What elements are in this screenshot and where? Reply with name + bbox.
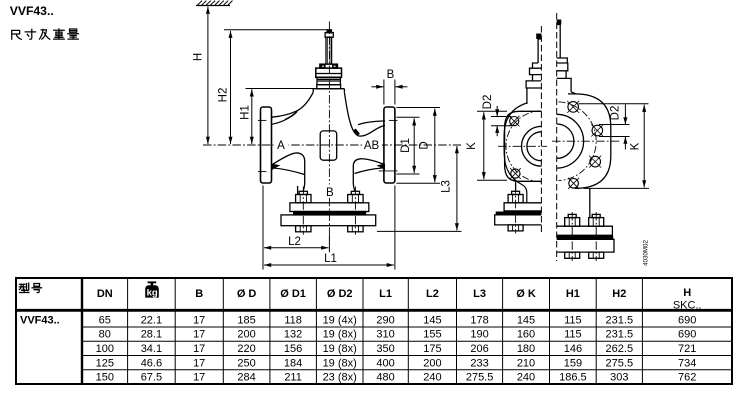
svg-text:4030M02: 4030M02 bbox=[643, 240, 650, 266]
svg-text:D2: D2 bbox=[482, 95, 494, 110]
svg-text:B: B bbox=[195, 288, 203, 300]
svg-text:28.1: 28.1 bbox=[141, 329, 162, 341]
svg-text:L2: L2 bbox=[426, 288, 439, 300]
svg-text:D1: D1 bbox=[400, 138, 412, 153]
svg-text:231.5: 231.5 bbox=[606, 329, 634, 341]
svg-text:H: H bbox=[193, 53, 205, 61]
svg-text:185: 185 bbox=[237, 314, 255, 326]
svg-text:200: 200 bbox=[237, 329, 255, 341]
svg-text:17: 17 bbox=[193, 357, 205, 369]
svg-text:H1: H1 bbox=[566, 288, 580, 300]
svg-text:K: K bbox=[629, 142, 641, 150]
svg-text:175: 175 bbox=[423, 343, 441, 355]
svg-text:231.5: 231.5 bbox=[606, 314, 634, 326]
svg-text:19 (8x): 19 (8x) bbox=[323, 357, 357, 369]
svg-text:19 (4x): 19 (4x) bbox=[323, 314, 357, 326]
svg-text:VVF43..: VVF43.. bbox=[10, 4, 54, 18]
svg-text:150: 150 bbox=[96, 371, 114, 383]
svg-text:262.5: 262.5 bbox=[606, 343, 634, 355]
svg-text:22.1: 22.1 bbox=[141, 314, 162, 326]
svg-text:118: 118 bbox=[284, 314, 302, 326]
svg-text:734: 734 bbox=[678, 357, 696, 369]
svg-text:DN: DN bbox=[97, 288, 113, 300]
svg-text:146: 146 bbox=[564, 343, 582, 355]
svg-text:H1: H1 bbox=[239, 105, 251, 120]
svg-text:100: 100 bbox=[96, 343, 114, 355]
svg-text:303: 303 bbox=[610, 371, 628, 383]
svg-text:H2: H2 bbox=[612, 288, 626, 300]
svg-text:400: 400 bbox=[376, 357, 394, 369]
svg-text:17: 17 bbox=[193, 371, 205, 383]
svg-text:690: 690 bbox=[678, 314, 696, 326]
svg-text:17: 17 bbox=[193, 343, 205, 355]
svg-text:Ø D: Ø D bbox=[237, 288, 257, 300]
svg-text:160: 160 bbox=[517, 329, 535, 341]
svg-text:80: 80 bbox=[99, 329, 111, 341]
svg-text:310: 310 bbox=[376, 329, 394, 341]
svg-text:480: 480 bbox=[376, 371, 394, 383]
svg-text:B: B bbox=[326, 187, 334, 199]
svg-text:180: 180 bbox=[517, 343, 535, 355]
svg-text:132: 132 bbox=[284, 329, 302, 341]
svg-text:115: 115 bbox=[564, 314, 582, 326]
svg-text:211: 211 bbox=[284, 371, 302, 383]
svg-text:159: 159 bbox=[564, 357, 582, 369]
svg-text:220: 220 bbox=[237, 343, 255, 355]
svg-text:762: 762 bbox=[678, 371, 696, 383]
svg-text:A: A bbox=[277, 140, 285, 152]
svg-text:67.5: 67.5 bbox=[141, 371, 162, 383]
svg-text:350: 350 bbox=[376, 343, 394, 355]
svg-text:19 (8x): 19 (8x) bbox=[323, 329, 357, 341]
svg-text:145: 145 bbox=[423, 314, 441, 326]
svg-text:Ø K: Ø K bbox=[516, 288, 536, 300]
svg-text:250: 250 bbox=[237, 357, 255, 369]
svg-text:B: B bbox=[387, 69, 395, 81]
svg-text:Ø D2: Ø D2 bbox=[327, 288, 353, 300]
svg-text:178: 178 bbox=[470, 314, 488, 326]
svg-text:184: 184 bbox=[284, 357, 302, 369]
svg-text:L3: L3 bbox=[473, 288, 486, 300]
svg-text:65: 65 bbox=[99, 314, 111, 326]
svg-text:690: 690 bbox=[678, 329, 696, 341]
svg-text:L3: L3 bbox=[441, 180, 453, 193]
svg-text:290: 290 bbox=[376, 314, 394, 326]
svg-text:19 (8x): 19 (8x) bbox=[323, 343, 357, 355]
svg-text:233: 233 bbox=[470, 357, 488, 369]
svg-text:D: D bbox=[419, 141, 431, 149]
svg-text:K: K bbox=[466, 142, 478, 150]
svg-text:186.5: 186.5 bbox=[559, 371, 587, 383]
svg-text:240: 240 bbox=[517, 371, 535, 383]
svg-text:34.1: 34.1 bbox=[141, 343, 162, 355]
svg-text:155: 155 bbox=[423, 329, 441, 341]
svg-text:721: 721 bbox=[678, 343, 696, 355]
svg-text:L1: L1 bbox=[379, 288, 392, 300]
svg-text:AB: AB bbox=[364, 140, 380, 152]
svg-text:284: 284 bbox=[237, 371, 255, 383]
svg-text:156: 156 bbox=[284, 343, 302, 355]
svg-text:L1: L1 bbox=[324, 253, 337, 265]
svg-text:206: 206 bbox=[470, 343, 488, 355]
svg-text:17: 17 bbox=[193, 329, 205, 341]
svg-text:kg: kg bbox=[147, 288, 158, 299]
svg-text:190: 190 bbox=[470, 329, 488, 341]
svg-text:145: 145 bbox=[517, 314, 535, 326]
svg-text:46.6: 46.6 bbox=[141, 357, 162, 369]
svg-text:VVF43..: VVF43.. bbox=[20, 315, 60, 327]
svg-text:240: 240 bbox=[423, 371, 441, 383]
svg-text:210: 210 bbox=[517, 357, 535, 369]
svg-text:275.5: 275.5 bbox=[606, 357, 634, 369]
svg-text:23 (8x): 23 (8x) bbox=[323, 371, 357, 383]
svg-text:L2: L2 bbox=[288, 236, 301, 248]
svg-text:Ø D1: Ø D1 bbox=[280, 288, 306, 300]
svg-text:H2: H2 bbox=[218, 88, 230, 103]
svg-text:17: 17 bbox=[193, 314, 205, 326]
svg-text:200: 200 bbox=[423, 357, 441, 369]
svg-text:SKC..: SKC.. bbox=[673, 300, 702, 312]
svg-text:D2: D2 bbox=[609, 106, 621, 121]
svg-text:125: 125 bbox=[96, 357, 114, 369]
svg-text:H: H bbox=[683, 287, 691, 299]
svg-text:115: 115 bbox=[564, 329, 582, 341]
svg-text:275.5: 275.5 bbox=[466, 371, 494, 383]
